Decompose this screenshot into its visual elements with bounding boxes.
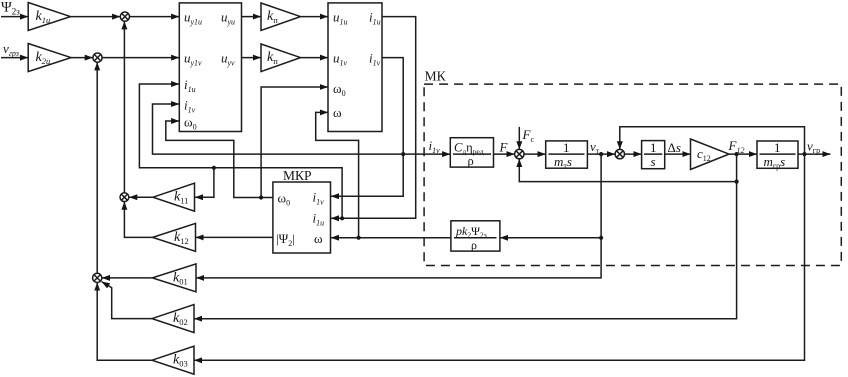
wire v_t branch into pk block — [500, 237, 601, 239]
wire S2 to block U1 input u_y1v — [102, 57, 179, 59]
amplifier k_p lower — [261, 44, 301, 72]
junction i_1v main branch — [401, 152, 405, 156]
junction omega0 branch — [259, 195, 263, 199]
wire v_t feedback down to k01 — [196, 154, 601, 278]
wire U1 output u_yv to kp2 — [242, 57, 262, 59]
node i_1v label at MK entry — [429, 138, 441, 155]
wire v_gr feedback down to k03 — [194, 154, 805, 360]
node F label — [499, 140, 509, 155]
wire F_c into SF — [518, 127, 520, 149]
MK dashed boundary — [424, 84, 841, 265]
svg-text:F: F — [499, 140, 509, 155]
amplifier k_12 — [153, 223, 196, 251]
junction omega branch — [357, 236, 361, 240]
MK label — [425, 69, 447, 84]
block 1/s — [642, 141, 665, 169]
block 1/(mt s) — [546, 141, 588, 168]
amplifier k_11 — [153, 183, 195, 211]
wire SF to block 1/mts — [524, 153, 546, 155]
wire omega0 branch to U2 input omega0 — [261, 87, 328, 198]
wire MKP output Psi2 to k12 — [196, 236, 273, 238]
node v_gr label — [807, 139, 820, 156]
svg-text:Δs: Δs — [668, 140, 681, 155]
node v_t label — [590, 139, 600, 156]
wire net i_1u from U2 output to MKP input i_1u — [331, 17, 416, 219]
svg-text:i1v: i1v — [429, 138, 441, 155]
wire k1u to summing node S1 — [71, 16, 121, 18]
summing junction S2 — [93, 53, 102, 62]
block pk2Psi2z/rho — [451, 221, 500, 251]
amplifier c_12 — [691, 139, 730, 170]
wire F_12 feedback into SF bottom — [519, 159, 736, 182]
summing junction S1 — [120, 12, 129, 21]
svg-text:1: 1 — [650, 140, 657, 155]
wire S1 to block U1 input u_y1u — [130, 16, 180, 18]
amplifier k_03 — [152, 346, 194, 374]
wire F_12 feedback down to k02 — [194, 154, 737, 319]
wire k12 to S3 bottom — [124, 202, 152, 238]
wire Psi_2z input to k1u — [1, 16, 28, 18]
wire k02 to S4 diagonal — [102, 282, 152, 319]
summing junction SV — [615, 149, 624, 158]
junction v_t to pk branch — [599, 236, 603, 240]
summing junction S3 — [120, 193, 129, 202]
svg-text:1: 1 — [563, 140, 570, 155]
svg-text:МК: МК — [425, 69, 447, 84]
amplifier k_2u — [28, 44, 71, 72]
svg-text:|Ψ2|: |Ψ2| — [276, 231, 295, 248]
summing junction S4 — [93, 273, 102, 282]
wire c12 to block 1/mgrs — [729, 153, 757, 155]
wire kp1 to block U2 input u_1u — [301, 16, 329, 18]
node F_12 label — [728, 138, 745, 155]
node delta-s label — [668, 140, 681, 155]
junction i_1u to k11 branch — [212, 166, 216, 170]
block U1 regulator — [179, 3, 241, 132]
junction F_12 node — [735, 152, 739, 156]
junction v_t node — [599, 152, 603, 156]
wire 1/s to amplifier c12 — [665, 153, 691, 155]
svg-text:ρ: ρ — [468, 154, 474, 168]
wire SV to block 1/s — [625, 153, 642, 155]
svg-text:ρ: ρ — [471, 238, 477, 252]
wire v_gr output — [798, 153, 831, 155]
svg-text:vгр: vгр — [807, 139, 820, 156]
wire Cg block to summing node SF — [494, 153, 515, 155]
svg-text:ω: ω — [333, 105, 342, 120]
wire mts block to summing node SV — [587, 153, 615, 155]
wire i_1v branch to U1 input i_1v — [153, 104, 404, 154]
junction i_1u branch — [340, 216, 344, 220]
wire net omega from pk block output to MKP input omega — [331, 237, 451, 239]
block Cg_eta_red/rho — [450, 138, 493, 167]
svg-text:mтs: mтs — [554, 154, 572, 171]
wire S3 output up to S1 — [123, 21, 125, 193]
svg-text:МКР: МКР — [283, 168, 312, 183]
wire v_gr feedback into SV — [620, 127, 805, 154]
block MKP observer — [273, 182, 331, 253]
svg-text:vт: vт — [590, 139, 600, 156]
svg-text:ω: ω — [314, 231, 323, 246]
junction F_12 feedback branch — [735, 180, 739, 184]
node Psi_2z input label — [1, 0, 20, 17]
svg-text:vгрз: vгрз — [3, 41, 19, 58]
wire i_1v into MK block Cg — [403, 153, 450, 155]
wire k01 to summing node S4 — [102, 277, 153, 279]
node v_grz input label — [3, 41, 19, 58]
wire i_1u branch to k11 — [195, 168, 214, 197]
amplifier k_1u — [28, 3, 70, 31]
wire k03 to S4 bottom — [97, 283, 152, 361]
junction v_gr node — [802, 152, 806, 156]
summing junction SF — [515, 149, 524, 158]
wire kp2 to block U2 input u_1v — [301, 57, 329, 59]
svg-text:1: 1 — [774, 140, 781, 155]
wire k2u to summing node S2 — [71, 57, 93, 59]
wire U1 output u_yu to kp1 — [242, 16, 262, 18]
amplifier k_02 — [152, 305, 194, 333]
wire omega branch to U2 input omega — [316, 112, 359, 237]
wire net i_1v from U2 output to MKP input i_1v — [331, 58, 403, 197]
wire v_grz input to k2u — [1, 57, 28, 59]
block U2 motor model — [328, 3, 382, 132]
wire k11 to summing node S3 — [129, 196, 153, 198]
svg-text:Fс: Fс — [522, 127, 535, 144]
node F_c disturbance input — [522, 127, 535, 144]
wire net omega0 from MKP output to U1 input omega0 — [166, 121, 273, 198]
block 1/(mgr s) — [757, 141, 798, 168]
svg-text:Ψ2з: Ψ2з — [1, 0, 20, 17]
wire S4 output up to S2 — [96, 62, 98, 273]
amplifier k_p upper — [261, 3, 301, 31]
amplifier k_01 — [152, 264, 196, 292]
svg-text:s: s — [651, 154, 656, 169]
wire i_1u branch to U1 input i_1u — [139, 84, 342, 218]
